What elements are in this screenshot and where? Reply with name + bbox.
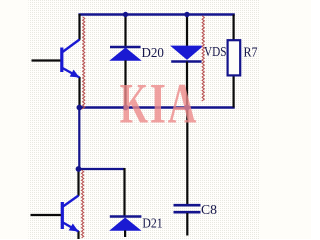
diode D20 [110,15,141,108]
label D20 [142,46,164,61]
wire left rail mid (middle bus to node B) [78,108,80,170]
error marker left upper [83,17,85,109]
junction middle bus / C8 [184,105,190,111]
wire middle bus [78,106,234,108]
label C8 [201,203,217,218]
error marker left lower [82,170,84,238]
transistor Q1 [62,40,80,78]
svg-text:C8: C8 [201,203,217,218]
svg-text:D20: D20 [142,46,164,61]
junction middle bus / left rail [77,105,83,111]
wire right rail (top bus to R7) [233,15,235,41]
svg-text:VDS: VDS [204,45,227,60]
junction middle bus / D20 [123,105,129,111]
capacitor C8 [174,108,201,236]
svg-text:A: A [168,71,197,135]
svg-text:K: K [120,72,149,135]
svg-text:I: I [150,71,166,135]
junction node B [76,166,82,172]
wire Q1 base [32,59,61,61]
label D21 [142,217,162,232]
label R7 [244,46,258,61]
label VDS [204,45,227,60]
svg-text:D21: D21 [142,217,162,232]
wire top bus [78,13,234,15]
junction top bus / D20 [123,12,128,17]
resistor R7 [228,40,241,75]
diode VD5 [171,15,202,108]
diode D21 [110,217,142,238]
wire left rail upper (top bus to Q1 collector) [78,14,80,40]
junction top bus / VD5 [184,12,189,17]
wire left rail lower (node B to Q2 collector) [77,169,79,196]
transistor Q2 [62,196,78,232]
svg-text:R7: R7 [244,46,258,61]
wire Q2 base [31,214,61,216]
watermark KIA [120,71,197,136]
wire node B to D21 [79,168,125,216]
wire right rail (R7 to middle bus) [233,75,235,108]
error marker right [202,16,204,101]
wire Q2 emitter to bottom edge [77,231,79,239]
wire Q1 emitter to middle bus [78,77,80,108]
